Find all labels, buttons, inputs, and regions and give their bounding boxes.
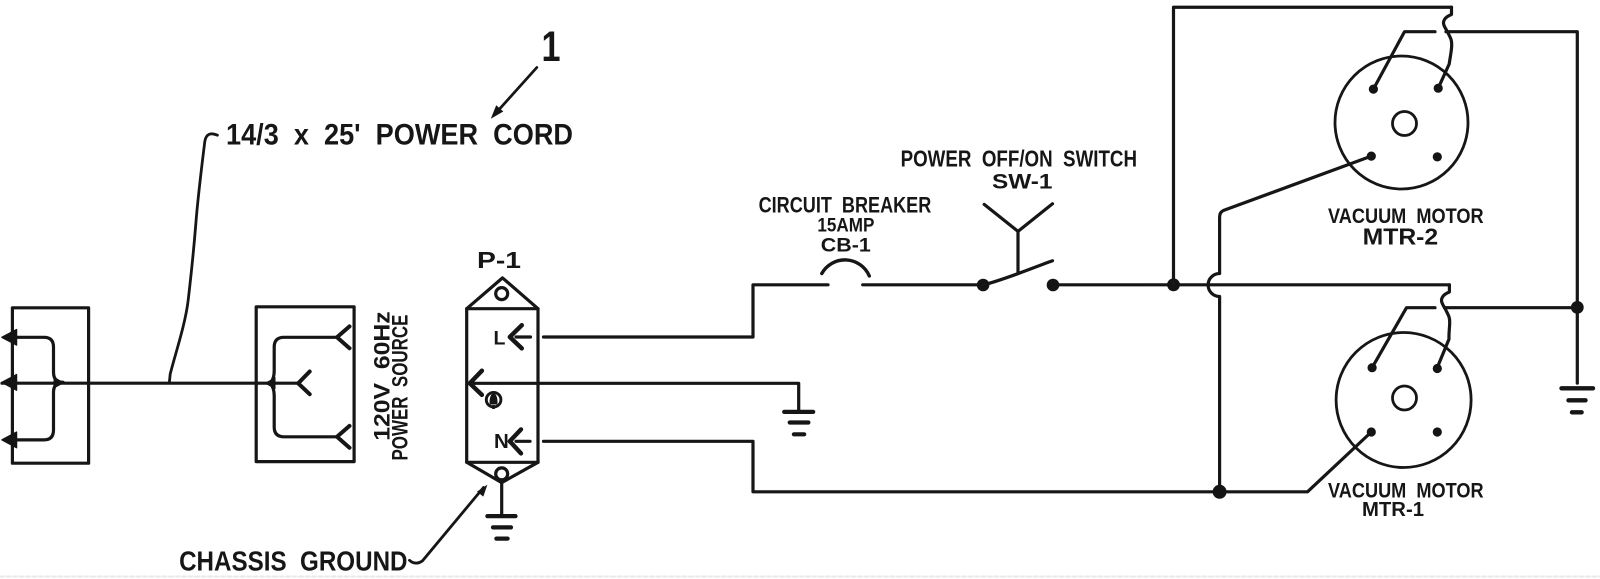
svg-text:CIRCUIT BREAKER: CIRCUIT BREAKER xyxy=(759,192,932,217)
circuit breaker CB-1 arc xyxy=(822,260,870,276)
connector P-1 bottom hole xyxy=(496,468,508,480)
wire MTR-1 squiggle to terminal xyxy=(1437,285,1449,368)
vacuum motor MTR-2 circle xyxy=(1335,56,1468,189)
MTR-2 hub xyxy=(1393,112,1417,136)
switch SW-1 stem xyxy=(1016,231,1019,273)
earth ground near P-1 bar2 xyxy=(790,420,809,424)
MTR-2 terminal BR xyxy=(1433,152,1442,161)
svg-text:MTR-2: MTR-2 xyxy=(1363,224,1439,250)
receptacle contact bottom xyxy=(337,426,350,448)
junction node at MTR-2 drop xyxy=(1167,278,1180,291)
wire receptacle top branch xyxy=(270,337,336,383)
wire riser to MTR-2 xyxy=(1174,7,1452,285)
MTR-2 terminal TL xyxy=(1369,85,1378,94)
svg-text:POWER SOURCE: POWER SOURCE xyxy=(388,315,413,461)
leader chassis ground label xyxy=(410,488,484,564)
switch SW-1 arm left xyxy=(984,204,1018,231)
svg-text:15AMP: 15AMP xyxy=(817,216,874,237)
MTR-1 terminal TL xyxy=(1368,363,1377,372)
MTR-2 terminal TR xyxy=(1434,84,1443,93)
pin ground circle icon xyxy=(486,392,501,407)
earth ground near P-1 bar3 xyxy=(794,432,804,436)
arrowhead chassis ground leader xyxy=(477,485,487,497)
svg-text:L: L xyxy=(494,328,506,350)
plug prong arrow middle xyxy=(2,375,17,390)
connector P-1 top triangle xyxy=(467,278,538,309)
MTR-1 hub xyxy=(1393,386,1417,410)
wire L to breaker xyxy=(544,285,829,337)
pin ground circle icon fill xyxy=(490,392,498,409)
switch SW-1 left contact xyxy=(977,279,990,292)
svg-text:1: 1 xyxy=(542,23,561,71)
wire switch to MTR-1 top xyxy=(1059,283,1449,286)
wire plug bottom conductor xyxy=(14,382,63,440)
wire N to bottom rail xyxy=(544,432,1372,492)
plug (male) body xyxy=(12,308,88,463)
MTR-1 terminal BL xyxy=(1367,427,1376,436)
svg-text:P-1: P-1 xyxy=(477,247,521,273)
svg-text:CB-1: CB-1 xyxy=(821,235,871,256)
wire receptacle bottom branch xyxy=(270,383,336,437)
earth ground right rail bar2 xyxy=(1569,398,1586,402)
wire ground pin to earth xyxy=(471,383,799,412)
wire breaker right side to switch xyxy=(863,283,977,286)
receptacle junction arrowhead xyxy=(265,377,276,389)
junction node ground rail xyxy=(1571,301,1584,314)
svg-text:SW-1: SW-1 xyxy=(992,171,1053,194)
receptacle contact middle xyxy=(298,372,310,395)
leader line power cord label xyxy=(169,134,217,382)
svg-text:POWER OFF/ON SWITCH: POWER OFF/ON SWITCH xyxy=(901,145,1137,171)
switch SW-1 blade xyxy=(983,261,1052,285)
earth ground right rail bar3 xyxy=(1572,410,1582,414)
arrowhead of balloon 1 leader xyxy=(491,105,504,119)
MTR-1 terminal BR xyxy=(1433,427,1442,436)
leader arrow for balloon 1 xyxy=(496,68,537,114)
wire main power cord xyxy=(2,382,298,385)
chassis ground bar1 xyxy=(487,514,515,518)
junction node bottom rail xyxy=(1213,485,1227,499)
pin ground arrowhead xyxy=(470,371,482,395)
connector P-1 top hole xyxy=(496,288,508,300)
wire ground rail top xyxy=(1446,32,1577,383)
wire MTR-2 left terminal to ground rail xyxy=(1373,32,1435,89)
switch SW-1 arm right xyxy=(1018,204,1053,232)
plug prong arrow bottom xyxy=(2,432,17,447)
connector P-1 bottom triangle xyxy=(467,462,538,482)
chassis ground stem under P-1 xyxy=(500,480,503,516)
connector P-1 body rectangle xyxy=(467,309,538,463)
wire N dash xyxy=(516,440,530,443)
pin L arrowhead xyxy=(510,325,522,348)
svg-text:MTR-1: MTR-1 xyxy=(1362,499,1424,521)
earth ground right rail bar1 xyxy=(1562,386,1594,390)
vacuum motor MTR-1 circle xyxy=(1336,333,1471,468)
wire MTR-2 squiggle to terminal xyxy=(1438,7,1452,88)
switch SW-1 right contact xyxy=(1047,279,1060,292)
scan artifact bottom line xyxy=(0,576,1600,578)
plug junction arrowhead xyxy=(54,377,65,389)
pin N arrowhead xyxy=(510,429,521,453)
svg-text:14/3 x 25' POWER CORD: 14/3 x 25' POWER CORD xyxy=(226,119,573,152)
chassis ground bar2 xyxy=(493,525,511,529)
MTR-1 terminal TR xyxy=(1433,364,1442,373)
receptacle contact top xyxy=(337,326,350,348)
earth ground near P-1 bar1 xyxy=(784,410,813,414)
wire MTR-1 left terminal to ground rail xyxy=(1372,308,1435,368)
MTR-2 terminal BL xyxy=(1367,152,1376,161)
plug prong arrow top xyxy=(2,330,17,345)
wire plug top conductor xyxy=(14,337,63,382)
wire MTR-1 ground link xyxy=(1445,306,1577,309)
svg-text:CHASSIS GROUND: CHASSIS GROUND xyxy=(179,546,407,577)
receptacle body xyxy=(256,307,354,462)
wire L dash xyxy=(516,335,531,338)
svg-text:N: N xyxy=(494,430,509,453)
chassis ground bar3 xyxy=(496,536,507,540)
wire MTR-2 BL terminal down to bottom rail xyxy=(1208,156,1371,492)
